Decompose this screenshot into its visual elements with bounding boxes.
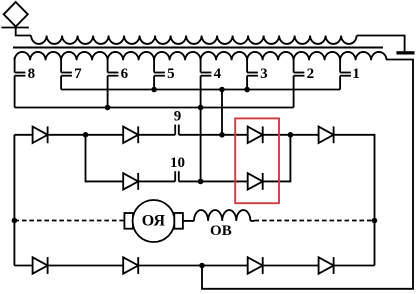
wire tap4 down to lower rectifier row <box>200 76 202 182</box>
ground <box>396 51 414 54</box>
bus of even taps <box>15 107 294 109</box>
motor armature OYA <box>133 200 175 242</box>
wire secondary right end to outer right rail <box>202 60 413 289</box>
diode VD8 bottom row <box>123 257 138 274</box>
tap contact 8 <box>15 58 26 108</box>
diode VD10 bottom row <box>319 257 334 274</box>
tap contact 4 <box>201 58 212 76</box>
red highlight box <box>235 118 279 203</box>
tap contact 3 <box>247 58 258 90</box>
wire brush to field winding <box>183 220 194 222</box>
upper rectifier row wire <box>14 135 374 266</box>
junction dot dashed left <box>12 218 18 224</box>
svg-text:7: 7 <box>74 66 82 82</box>
diode VD1 upper row <box>33 126 48 143</box>
svg-text:ОЯ: ОЯ <box>142 212 166 229</box>
junction dot tap5 bus <box>151 87 157 93</box>
contact 9 <box>175 125 179 135</box>
svg-text:1: 1 <box>352 66 360 82</box>
junction dot lower row tap4 <box>198 179 204 185</box>
junction dot odd bus feeder <box>219 87 225 93</box>
diode VD5 lower row <box>123 173 138 190</box>
svg-text:9: 9 <box>174 109 182 125</box>
lower rectifier row wire <box>123 135 290 182</box>
tap contact 7 <box>61 58 72 90</box>
brush left <box>124 213 133 229</box>
wire odd bus down to upper rectifier row <box>221 90 223 135</box>
svg-text:ОВ: ОВ <box>210 223 232 239</box>
tap contact 1 <box>340 58 351 90</box>
svg-text:4: 4 <box>214 66 222 82</box>
svg-text:5: 5 <box>167 66 175 82</box>
tap contact 2 <box>294 58 305 108</box>
transformer core <box>13 47 383 49</box>
wire field winding stub <box>250 220 254 222</box>
diode VD3 upper row (highlighted) <box>248 126 263 143</box>
wire upper row down to lower row left <box>86 135 124 182</box>
diode VD7 bottom row <box>33 257 48 274</box>
svg-text:6: 6 <box>121 66 129 82</box>
dashed link left <box>14 220 124 222</box>
junction dot dashed right <box>372 218 378 224</box>
contact 10 <box>175 171 179 181</box>
svg-text:3: 3 <box>260 66 268 82</box>
junction dot upper row right <box>288 132 294 138</box>
transformer primary winding <box>31 36 357 44</box>
brush right <box>174 213 183 229</box>
junction dot tap6 bus <box>105 105 111 111</box>
tap contact 5 <box>154 58 165 90</box>
junction dot tap4 bus <box>198 105 204 111</box>
diode VD6 lower row (highlighted) <box>248 173 263 190</box>
svg-text:8: 8 <box>28 66 36 82</box>
diode VD4 upper row <box>319 126 334 143</box>
svg-text:10: 10 <box>170 155 185 171</box>
diode VD2 upper row <box>123 126 138 143</box>
junction dot bottom row <box>199 263 205 269</box>
diode VD9 bottom row <box>248 257 263 274</box>
junction dot upper row left <box>83 132 89 138</box>
dashed link right <box>255 220 375 222</box>
field winding OV <box>194 210 250 221</box>
tap contact 6 <box>108 58 119 108</box>
transformer secondary winding <box>15 52 387 60</box>
pantograph XA <box>1 2 28 28</box>
bus of odd taps <box>61 89 340 91</box>
left rail <box>13 135 15 266</box>
junction dot tap3 bus <box>244 87 250 93</box>
bottom rectifier row wire <box>14 265 374 267</box>
wire primary to ground <box>357 36 405 52</box>
svg-text:2: 2 <box>307 66 315 82</box>
wire pantograph to primary winding <box>16 27 31 36</box>
junction dot upper row feeder <box>219 132 225 138</box>
